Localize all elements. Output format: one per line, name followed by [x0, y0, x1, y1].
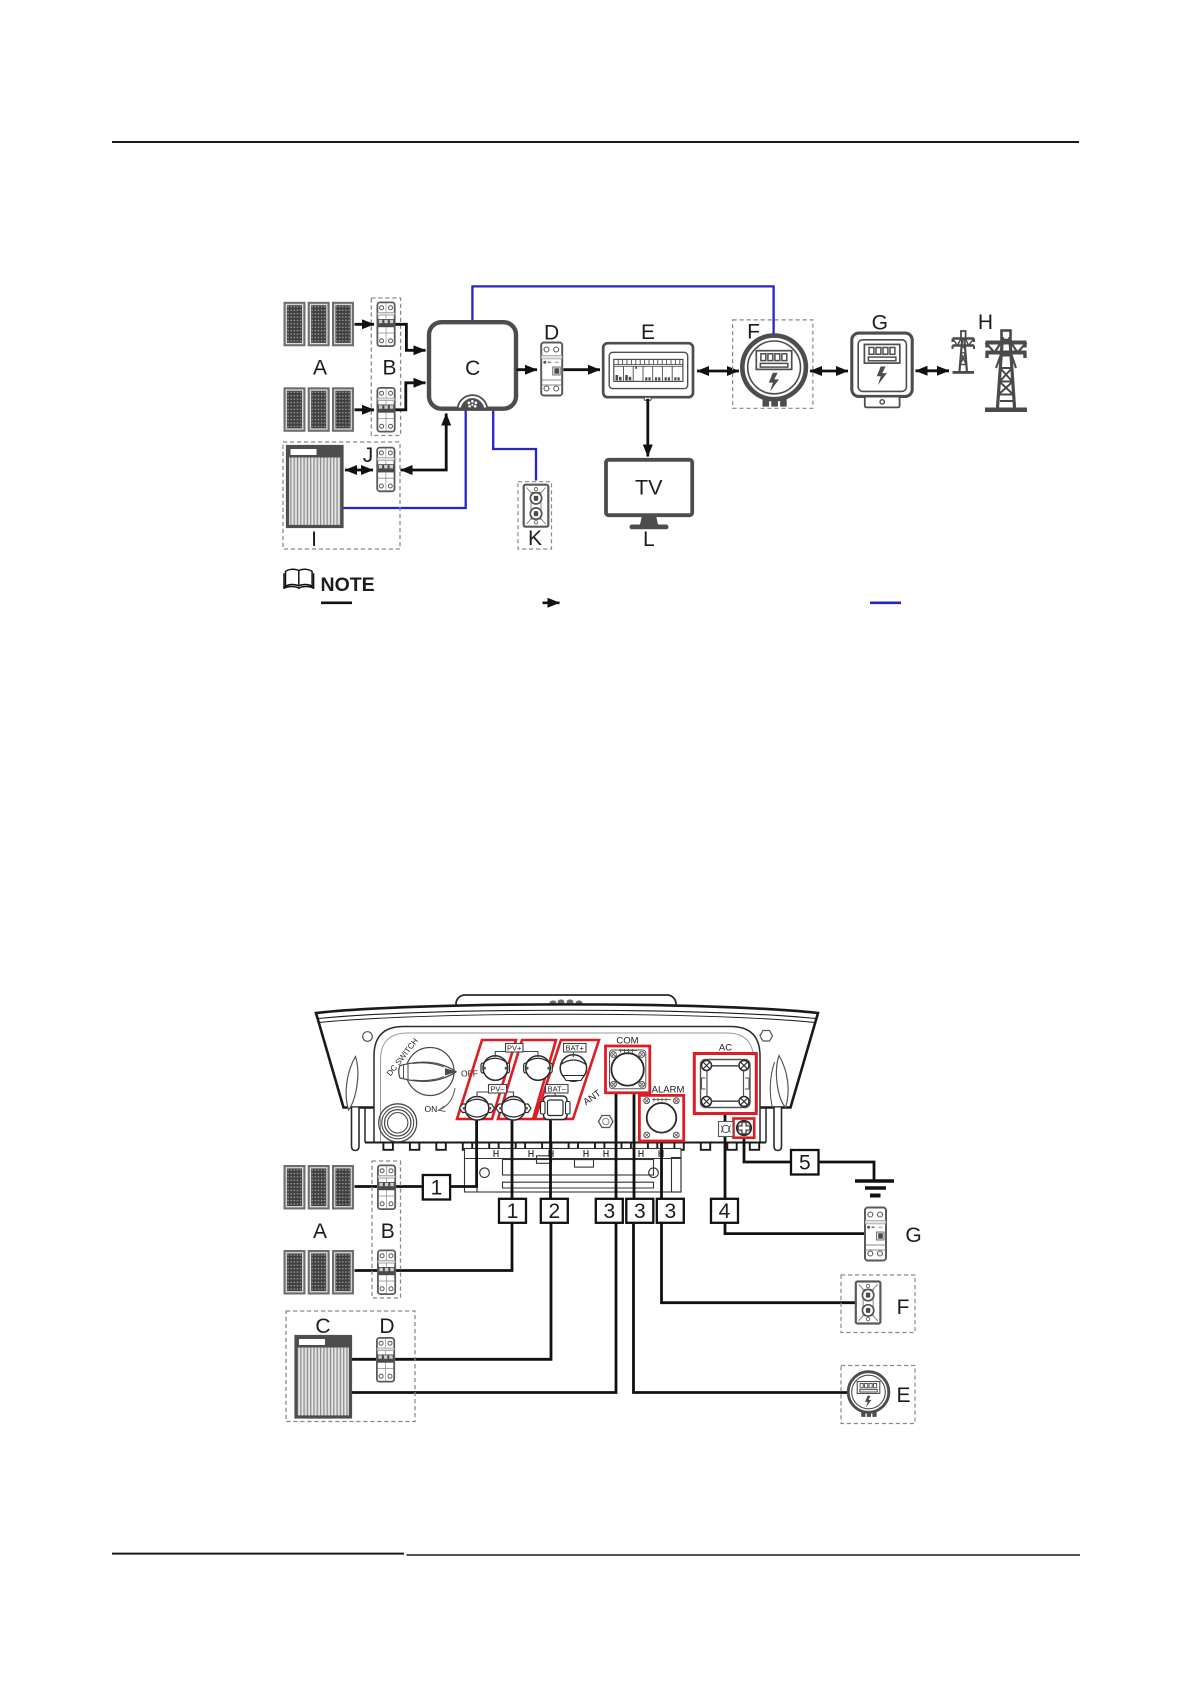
knockout rings [379, 1104, 417, 1142]
callout box 1a [423, 1175, 450, 1200]
svg-text:C: C [465, 357, 480, 380]
ground screw [734, 1119, 755, 1138]
BAT minus connector [541, 1096, 571, 1120]
double arrow F to G [810, 370, 848, 373]
svg-text:NOTE: NOTE [321, 574, 375, 596]
svg-text:2: 2 [548, 1200, 560, 1223]
right mounting leg [774, 1108, 782, 1151]
dashed box E diag2 [841, 1366, 915, 1424]
PV2 minus connector [496, 1097, 531, 1121]
breaker D diag2 [377, 1338, 394, 1382]
svg-text:D: D [544, 322, 559, 345]
red frame PV2 [498, 1040, 556, 1119]
inverter top cover hump [456, 995, 676, 1021]
svg-text:PV+: PV+ [507, 1044, 522, 1053]
callout box 4 [711, 1199, 738, 1223]
wire ground screw to callout 5 to earth [744, 1137, 874, 1180]
label J [363, 444, 374, 467]
left mounting leg [352, 1108, 360, 1151]
left bracket ear leaf [346, 1057, 358, 1111]
svg-text:B: B [382, 357, 396, 380]
power grid tower large [985, 331, 1027, 413]
svg-text:D: D [379, 1315, 394, 1338]
callout box 5 [791, 1150, 819, 1175]
BAT plus connector [560, 1055, 586, 1081]
legend blue line [870, 601, 901, 604]
label F [747, 321, 760, 344]
PV+ label [495, 1044, 538, 1058]
label A diag2 [313, 1220, 327, 1243]
breaker D [541, 343, 562, 396]
svg-text:C: C [315, 1315, 330, 1338]
svg-text:G: G [905, 1224, 921, 1247]
footer rule left [112, 1553, 404, 1555]
callout box 2 [541, 1199, 568, 1223]
blue wire C to K [493, 410, 536, 481]
energy meter G [852, 333, 912, 407]
ANT hex nut [599, 1116, 614, 1128]
label H [978, 311, 993, 334]
wire ALARM to callout 3c to socket F [662, 1140, 857, 1303]
callout box 3b [626, 1199, 653, 1223]
PV string A2 row 1 [285, 1166, 354, 1209]
svg-text:F: F [747, 321, 760, 344]
svg-text:E: E [896, 1384, 910, 1407]
ALARM label [652, 1085, 685, 1096]
label C diag2 [315, 1315, 330, 1338]
face screw hole top-left [363, 1032, 373, 1042]
TV L [606, 460, 692, 530]
svg-text:BAT–: BAT– [548, 1085, 567, 1094]
label K [528, 527, 542, 550]
svg-text:3: 3 [603, 1200, 615, 1223]
svg-text:1: 1 [431, 1177, 443, 1200]
PV string A row 1 [285, 303, 354, 346]
wire C to D [517, 368, 538, 371]
breaker B2 [377, 388, 394, 432]
red frame PV1 [457, 1040, 516, 1119]
dashed box B diag2 [372, 1161, 401, 1298]
dashed box B [371, 298, 400, 436]
energy meter F [742, 336, 806, 407]
inverter face panel [374, 1027, 760, 1143]
PV1 plus connector [481, 1056, 510, 1081]
battery C [296, 1337, 351, 1418]
ground marking plate [719, 1122, 734, 1137]
ANT label [581, 1088, 603, 1108]
wire B1 to callout 1 to PV1 minus [355, 1120, 477, 1187]
OFF label [461, 1069, 478, 1079]
wire COM to callout 3a to battery C [351, 1092, 617, 1393]
DC SWITCH label [385, 1036, 420, 1077]
breaker B1 [377, 302, 394, 346]
svg-text:K: K [528, 527, 542, 550]
svg-text:ON: ON [425, 1104, 438, 1114]
power grid tower small [953, 331, 975, 374]
earth ground symbol [855, 1181, 894, 1196]
label L [643, 528, 655, 551]
inverter body shell [316, 1004, 818, 1107]
svg-text:G: G [872, 312, 888, 335]
PV- label [477, 1085, 514, 1097]
label B [382, 357, 396, 380]
AC label [719, 1043, 732, 1054]
distribution box E [603, 343, 693, 400]
svg-text:TV: TV [635, 476, 663, 500]
svg-text:AC: AC [719, 1043, 732, 1054]
callout box 3a [596, 1199, 623, 1223]
label E [641, 321, 655, 344]
wire B1 to C [396, 324, 426, 350]
dashed box F [733, 320, 813, 408]
svg-text:F: F [897, 1296, 910, 1319]
svg-text:A: A [313, 1220, 327, 1243]
breaker J [377, 448, 394, 492]
wall socket F diag2 [856, 1282, 881, 1324]
dashed box I [283, 442, 400, 549]
dashed box K [518, 482, 552, 549]
svg-text:I: I [311, 528, 317, 551]
wall socket K [524, 485, 549, 527]
svg-text:COM: COM [616, 1036, 638, 1047]
svg-text:5: 5 [799, 1152, 811, 1175]
wire BAT minus to callout 2 to breaker D [351, 1119, 552, 1359]
label G [872, 312, 888, 335]
BAT+ label [564, 1044, 587, 1058]
DC SWITCH rotary [399, 1048, 456, 1096]
svg-text:1: 1 [507, 1200, 519, 1223]
BAT- label [546, 1085, 569, 1097]
battery I [288, 447, 343, 527]
PV string A2 row 2 [285, 1251, 354, 1294]
callout box 3c [657, 1199, 684, 1223]
blue wire C to I [344, 410, 466, 508]
wire J to C with arrows [401, 414, 448, 471]
face bottom castellated edge [365, 1108, 766, 1150]
wire AC to callout 4 to breaker G [725, 1113, 864, 1234]
label G diag2 [905, 1224, 921, 1247]
PV2 plus connector [524, 1056, 553, 1081]
wire A2 to B2 [355, 408, 375, 411]
svg-text:BAT+: BAT+ [565, 1044, 584, 1053]
label B diag2 [381, 1220, 395, 1243]
svg-text:A: A [313, 357, 327, 380]
wire D to E [563, 368, 600, 371]
double arrow E to F [697, 370, 739, 373]
label D diag2 [379, 1315, 394, 1338]
label A [313, 357, 327, 380]
right bracket ear leaf [770, 1056, 788, 1108]
ALARM port [639, 1095, 683, 1141]
callout box 1b [499, 1199, 526, 1223]
wire PV2 minus to callout 1b to B2 [355, 1120, 513, 1271]
dashed box F diag2 [841, 1275, 915, 1333]
svg-text:B: B [381, 1220, 395, 1243]
svg-text:E: E [641, 321, 655, 344]
dashed box battery C and breaker D [286, 1311, 415, 1422]
breaker B2 diag2 [378, 1250, 395, 1294]
NOTE text [321, 574, 375, 596]
svg-text:4: 4 [719, 1200, 731, 1223]
COM port [606, 1046, 650, 1093]
svg-text:H: H [978, 311, 993, 334]
svg-text:3: 3 [634, 1200, 646, 1223]
PV1 minus connector [460, 1097, 495, 1121]
wire B2 to C [396, 383, 426, 410]
red frame BAT [535, 1040, 599, 1119]
double arrow I to J [345, 469, 373, 472]
wire COM to callout 3b to meter E [634, 1092, 850, 1393]
label E diag2 [896, 1384, 910, 1407]
double arrow G to H [916, 369, 950, 372]
breaker B1 diag2 [378, 1165, 395, 1209]
face hex hole top-right [760, 1031, 773, 1042]
AC port [694, 1054, 756, 1114]
wire A1 to B1 [355, 323, 375, 326]
COM label [616, 1036, 638, 1047]
legend arrow [543, 601, 560, 604]
svg-text:PV–: PV– [490, 1085, 505, 1094]
svg-text:J: J [363, 444, 374, 467]
header rule [112, 141, 1079, 143]
ON-OFF arc arrow [439, 1088, 456, 1112]
mounting bracket [465, 1149, 682, 1193]
breaker G diag2 [865, 1208, 886, 1261]
label F diag2 [897, 1296, 910, 1319]
svg-text:L: L [643, 528, 655, 551]
energy meter E diag2 [848, 1372, 889, 1417]
PV string A row 2 [285, 388, 354, 431]
label D [544, 322, 559, 345]
NOTE book icon [284, 569, 314, 588]
legend black line [321, 601, 352, 604]
ON label [425, 1104, 438, 1114]
svg-text:3: 3 [664, 1200, 676, 1223]
footer rule right [407, 1554, 1081, 1556]
wire E to TV [646, 399, 649, 457]
svg-text:ALARM: ALARM [652, 1085, 685, 1096]
label I [311, 528, 317, 551]
blue wire C to F [472, 286, 773, 334]
inverter C [429, 322, 516, 409]
